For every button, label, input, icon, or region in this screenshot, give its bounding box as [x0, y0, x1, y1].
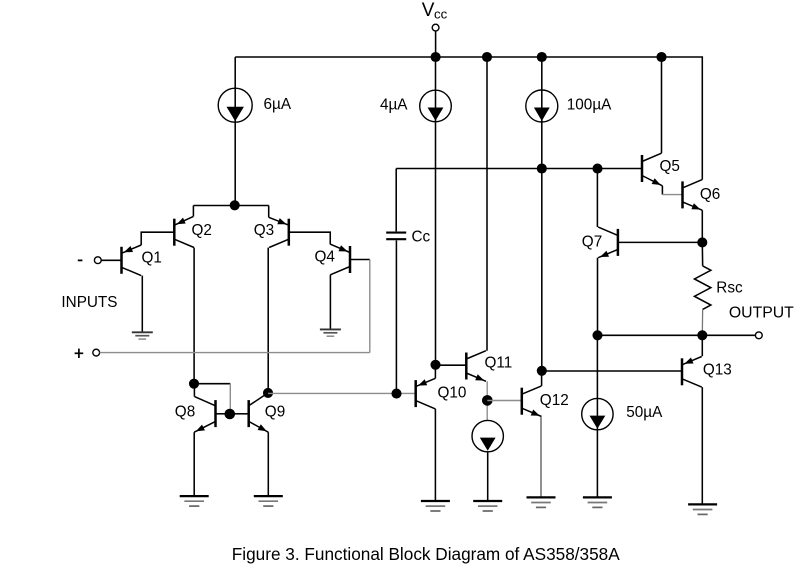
- node input-pair common: [230, 200, 240, 210]
- wire plus input: [100, 352, 370, 354]
- wire 6uA branch: [234, 57, 236, 206]
- wire mirror to Q10 base: [268, 392, 416, 394]
- wire Q3 collector: [267, 248, 269, 393]
- label Q2: [192, 222, 212, 239]
- current source 50uA: [582, 398, 613, 429]
- transistor Q3: [269, 217, 289, 247]
- wire 100uA branch: [541, 57, 543, 371]
- svg-text:Q8: Q8: [175, 404, 195, 421]
- wire Q11 collector to rail: [486, 57, 488, 351]
- transistor Q1: [122, 245, 142, 276]
- label Q11: [485, 355, 513, 372]
- svg-text:Q11: Q11: [485, 355, 513, 372]
- transistor Q6: [683, 180, 703, 211]
- resistor Rsc: [694, 242, 710, 335]
- wire Q7 collector: [596, 169, 598, 228]
- svg-text:Rsc: Rsc: [716, 280, 743, 297]
- transistor Q13: [682, 357, 702, 388]
- label Q5: [660, 158, 680, 175]
- wire Q3 emitter: [268, 206, 270, 218]
- label Q6: [700, 186, 720, 203]
- svg-text:Q3: Q3: [254, 222, 274, 239]
- wire Q4 base drop: [369, 260, 371, 353]
- svg-text:Q13: Q13: [703, 362, 732, 379]
- wire emitter rail Q2-Q3: [193, 205, 268, 207]
- svg-text:Q10: Q10: [438, 385, 467, 402]
- node output-Q7: [592, 330, 602, 340]
- svg-text:Figure 3. Functional Block Dia: Figure 3. Functional Block Diagram of AS…: [232, 544, 620, 564]
- current source 100uA: [526, 90, 558, 122]
- svg-text:100µA: 100µA: [567, 96, 612, 113]
- transistor Q7: [598, 227, 618, 258]
- label Q12: [540, 392, 569, 409]
- svg-text:6µA: 6µA: [264, 96, 292, 113]
- wire Q10 emitter: [434, 409, 436, 501]
- input terminal plus: [93, 349, 100, 356]
- wire Q9 emitter: [267, 432, 269, 496]
- label Q9: [265, 404, 285, 421]
- ground under Q8: [180, 496, 209, 506]
- wire Q2 emitter: [192, 206, 194, 217]
- transistor Q11: [466, 351, 486, 382]
- wire Q13 collector: [701, 335, 703, 356]
- transistor Q4: [330, 244, 350, 275]
- transistor Q12: [522, 386, 542, 417]
- label OUTPUT: [729, 304, 794, 321]
- label Q13: [703, 362, 732, 379]
- wire Q4 collector: [329, 275, 331, 330]
- input terminal minus: [94, 257, 121, 264]
- current source under Q11: [472, 420, 503, 451]
- node Q8-Q9 base: [225, 409, 236, 420]
- label Vcc: [422, 0, 448, 21]
- wire Q1 collector: [141, 276, 143, 333]
- label Cc: [412, 228, 431, 245]
- node Cc bottom junction: [391, 389, 401, 399]
- transistor Q10: [416, 378, 436, 409]
- label Rsc: [716, 280, 743, 297]
- wire Q8 base: [216, 413, 226, 415]
- label Q4: [315, 249, 336, 266]
- svg-text:Q7: Q7: [582, 233, 602, 250]
- node Q6-Rsc: [697, 237, 707, 247]
- label Q7: [582, 233, 602, 250]
- label 50uA: [626, 404, 663, 421]
- ground under Q10: [421, 501, 450, 511]
- ground under Q13: [688, 504, 717, 514]
- capacitor Cc: [386, 233, 406, 240]
- wire 50uA branch: [596, 335, 598, 497]
- ground under Q12: [527, 497, 556, 507]
- wire compensation node: [396, 168, 642, 170]
- svg-text:4µA: 4µA: [380, 96, 408, 113]
- wire Q12 emitter: [540, 417, 542, 498]
- svg-text:V: V: [422, 0, 435, 21]
- label plus: [75, 349, 84, 358]
- transistor Q9: [249, 393, 269, 432]
- svg-text:Q2: Q2: [192, 222, 212, 239]
- wire 4uA branch: [435, 57, 437, 365]
- node mid-Q7: [592, 164, 602, 174]
- wire Q11 emitter: [486, 381, 488, 421]
- wire Cc bottom: [395, 240, 397, 393]
- output terminal: [755, 332, 762, 339]
- caption: [232, 544, 620, 564]
- label Q10: [438, 385, 467, 402]
- svg-text:Q5: Q5: [660, 158, 680, 175]
- label 100uA: [567, 96, 612, 113]
- wire Q12 collector to Q13 base: [542, 370, 682, 372]
- power terminal Vcc: [432, 24, 439, 57]
- node Q2-collector junction: [189, 379, 199, 389]
- node Q12-100uA: [537, 366, 547, 376]
- svg-text:Q12: Q12: [540, 392, 569, 409]
- transistor Q5: [642, 153, 662, 186]
- node Q3-Q9 collector: [263, 388, 273, 398]
- wire Q7 emitter: [597, 258, 599, 336]
- current source 6uA: [218, 88, 252, 122]
- wire Q10 collector: [434, 365, 436, 379]
- wire Q11 base: [436, 364, 467, 366]
- label 4uA: [380, 96, 408, 113]
- wire Q5 collector: [661, 57, 663, 153]
- label INPUTS: [61, 294, 117, 311]
- node rail-Q11: [482, 52, 492, 62]
- wire Q7 base: [618, 241, 702, 243]
- ground under Q4: [320, 329, 341, 336]
- wire top supply rail: [235, 57, 702, 180]
- wire Q8 top to junction: [193, 389, 195, 397]
- node rail-Q5: [656, 52, 666, 62]
- wire mirror base link: [194, 384, 230, 414]
- wire Q2 collector: [193, 248, 195, 384]
- ground under Q11 source: [473, 501, 502, 511]
- ground under Q1: [132, 332, 153, 339]
- label Q3: [254, 222, 274, 239]
- wire Q5 emitter to Q6 base: [662, 186, 682, 195]
- wire Q3 base to Q4 emitter: [289, 232, 330, 244]
- wire Q12 collector: [541, 371, 543, 386]
- svg-text:Q9: Q9: [265, 404, 285, 421]
- svg-text:INPUTS: INPUTS: [61, 294, 117, 311]
- wire Q6 emitter: [701, 210, 703, 242]
- wire Q9 base: [235, 413, 249, 415]
- wire Q1 emitter to Q2 base: [141, 232, 174, 245]
- transistor Q8: [194, 397, 215, 433]
- label minus: [78, 259, 83, 261]
- ground under 50uA: [583, 497, 612, 507]
- wire Q13 emitter: [701, 387, 703, 504]
- label Q8: [175, 404, 195, 421]
- label Q1: [142, 250, 162, 267]
- node Q11-Q12 base: [482, 395, 493, 406]
- wire Q12 base: [487, 400, 522, 402]
- node output-Q13: [697, 330, 707, 340]
- wire Q8 emitter: [193, 432, 195, 496]
- wire Q4 base: [350, 259, 370, 261]
- wire Cc top: [395, 169, 397, 232]
- current source 4uA: [420, 90, 452, 122]
- svg-text:Q1: Q1: [142, 250, 162, 267]
- svg-text:50µA: 50µA: [626, 404, 663, 421]
- node rail-100uA: [537, 52, 547, 62]
- transistor Q2: [174, 216, 194, 247]
- svg-text:Q4: Q4: [315, 249, 336, 266]
- wire Q11 source to ground: [487, 452, 489, 501]
- ground under Q9: [254, 496, 283, 506]
- svg-text:Q6: Q6: [700, 186, 720, 203]
- svg-text:cc: cc: [434, 7, 448, 22]
- label 6uA: [264, 96, 292, 113]
- node Q10-Q11 base: [430, 360, 440, 370]
- node rail-4uA: [431, 52, 441, 62]
- node mid-100uA: [537, 163, 547, 173]
- svg-text:Cc: Cc: [412, 228, 431, 245]
- wire output: [598, 334, 756, 336]
- svg-text:OUTPUT: OUTPUT: [729, 304, 794, 321]
